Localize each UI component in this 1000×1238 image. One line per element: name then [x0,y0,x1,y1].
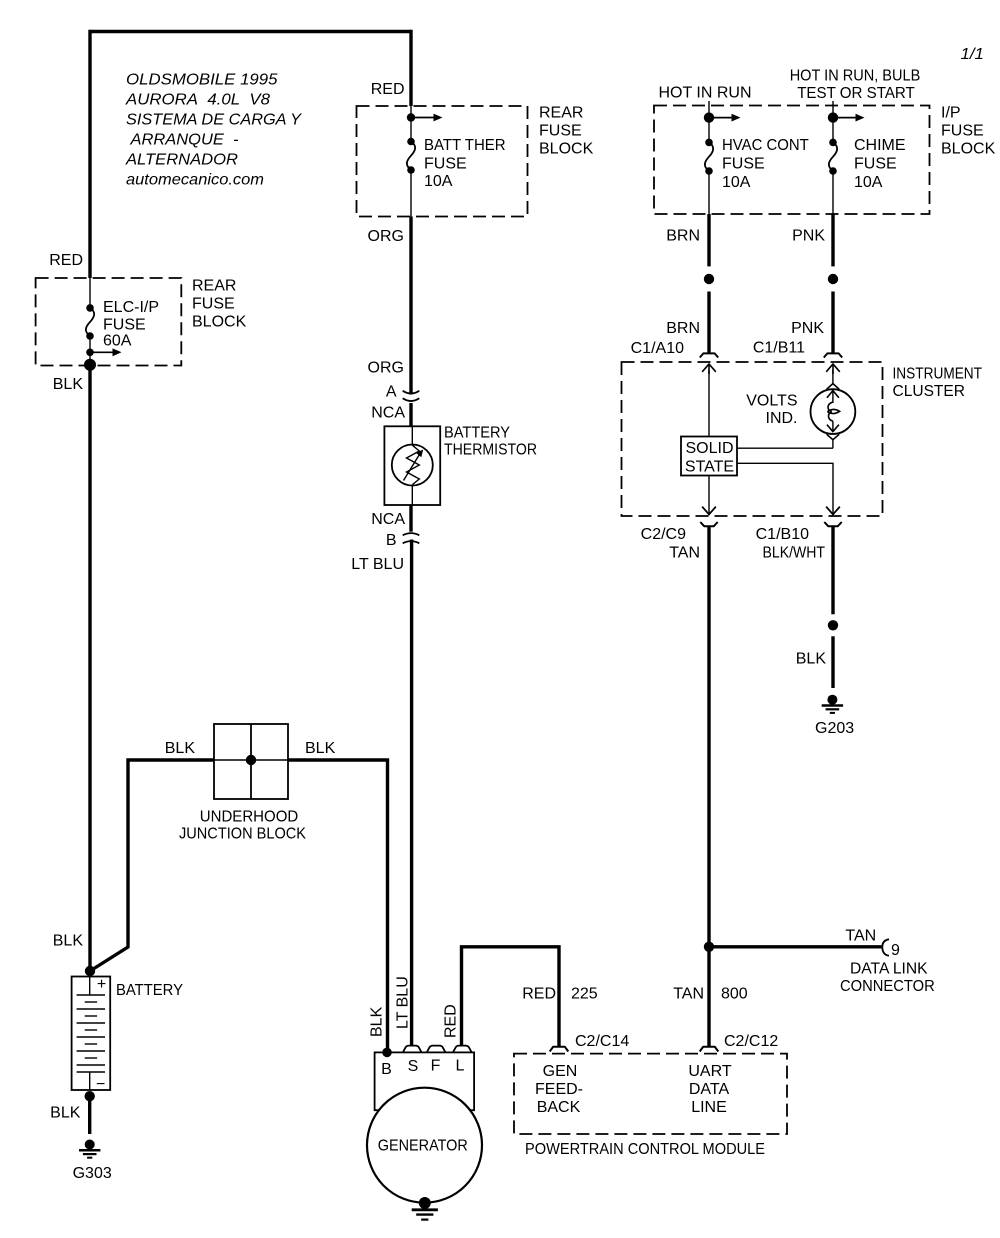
svg-text:800: 800 [721,986,748,1003]
svg-text:BACK: BACK [537,1099,581,1116]
svg-text:BRN: BRN [666,320,700,337]
svg-text:BATTERY: BATTERY [116,982,183,999]
node: rear fuse block output junction [84,359,96,371]
svg-text:BLK: BLK [165,740,196,757]
arrow: ELC fuse output tap [90,348,122,356]
svg-text:A: A [386,384,397,401]
svg-text:10A: 10A [424,173,453,190]
node: HVAC fuse feed [704,112,714,122]
battery internal plates [77,977,105,1091]
wire: fuse to box edge [410,170,412,217]
thermistor internal: lead in [411,426,413,445]
svg-text:10A: 10A [722,174,751,191]
svg-text:THERMISTOR: THERMISTOR [444,442,537,459]
svg-text:C2/C12: C2/C12 [724,1033,778,1050]
volts lamp: filament loop [827,402,839,421]
wire: BRN lower [707,292,710,354]
rear fuse block (left) dashed outline [36,278,182,366]
svg-text:LT BLU: LT BLU [395,976,412,1029]
thermistor internal: lead out [411,486,413,506]
arrow: solid state output down [826,507,840,515]
generator terminal hump F [427,1046,446,1053]
svg-text:ORG: ORG [368,360,404,377]
svg-text:BLOCK: BLOCK [941,141,996,158]
wire: thermistor to connector B [409,505,412,532]
svg-text:AURORA 4.0L V8: AURORA 4.0L V8 [125,92,270,109]
ground G203 [822,695,843,713]
node: batt ther fuse feed [407,113,415,121]
svg-text:−: − [96,1076,105,1093]
node: PNK splice [828,274,838,284]
svg-text:TAN: TAN [669,545,700,562]
svg-text:BLK/WHT: BLK/WHT [763,545,826,562]
svg-text:HOT IN RUN: HOT IN RUN [658,85,751,102]
powertrain control module dashed outline [514,1054,787,1134]
svg-text:ALTERNADOR: ALTERNADOR [125,152,238,169]
svg-text:TAN: TAN [845,928,876,945]
svg-text:C2/C14: C2/C14 [575,1033,629,1050]
svg-text:IND.: IND. [766,410,798,427]
arrow: batt ther fuse feed tap [411,114,443,122]
svg-text:TAN: TAN [673,986,704,1003]
svg-text:FUSE: FUSE [539,123,582,140]
svg-text:S: S [408,1058,419,1075]
svg-text:BLK: BLK [305,740,336,757]
wire: node to fuse [410,118,412,142]
label HVAC CONT FUSE 10A [722,137,809,191]
wire: connector A to thermistor [409,403,412,426]
svg-text:+: + [97,976,106,993]
solid state box [681,437,737,476]
svg-text:9: 9 [891,942,900,959]
wire: through junction block (thin) [214,759,288,761]
label INSTRUMENT CLUSTER [893,366,983,401]
svg-text:I/P: I/P [941,105,961,122]
connector C2/C14 at PCM [550,1047,569,1052]
label DATA LINK CONNECTOR [840,961,935,996]
label REAR FUSE BLOCK (left) [192,278,247,331]
svg-text:GEN: GEN [543,1063,578,1080]
label UNDERHOOD JUNCTION BLOCK [179,809,306,843]
svg-text:BLK: BLK [796,651,827,668]
volts lamp: top coupling triangle [827,370,840,389]
svg-text:BRN: BRN [666,228,700,245]
wire: junction block to generator B [288,760,388,1052]
svg-text:B: B [381,1061,392,1078]
svg-text:BLK: BLK [53,933,84,950]
svg-text:FUSE: FUSE [103,317,146,334]
svg-text:C1/B11: C1/B11 [753,340,805,357]
svg-text:LINE: LINE [691,1099,727,1116]
node: TAN splice to DLC [704,942,714,952]
generator body circle [367,1088,482,1203]
svg-text:automecanico.com: automecanico.com [126,172,264,189]
ground at generator case [412,1197,438,1220]
wire: left RED vertical (top to rear fuse block) [88,30,91,278]
svg-text:UART: UART [688,1063,731,1080]
generator terminal hump S [403,1046,422,1053]
connector C1/A10 at cluster [700,353,718,374]
svg-text:INSTRUMENT: INSTRUMENT [893,366,983,383]
thermistor zigzag element [407,445,420,484]
svg-text:BLOCK: BLOCK [539,141,594,158]
svg-text:GENERATOR: GENERATOR [378,1138,468,1155]
wire: solid state to output [737,463,833,513]
svg-text:DATA: DATA [689,1081,730,1098]
connector C1/B11 at cluster [824,353,842,374]
svg-text:RED: RED [443,1004,460,1038]
thermistor circle [392,445,433,486]
fuse BATT THER 10A [407,138,415,174]
connector C2/C12 at PCM [700,1047,719,1052]
volts lamp: internal up arrow [827,389,839,403]
label CHIME FUSE 10A [854,137,906,191]
node: junction block splice [246,755,256,765]
wire: feed into ELC-I/P fuse [89,278,91,308]
svg-text:BLK: BLK [50,1105,81,1122]
volts indicator lamp circle [811,389,856,434]
svg-text:BATT THER: BATT THER [424,137,506,154]
wire: LT BLU long vertical to generator S [410,540,413,1047]
svg-text:1/1: 1/1 [961,46,984,63]
svg-text:STATE: STATE [685,459,734,476]
svg-text:CLUSTER: CLUSTER [893,383,966,400]
volts lamp: internal down arrow [827,421,839,431]
connector C1/B10 at cluster [824,507,841,527]
label REAR FUSE BLOCK (top) [539,105,594,158]
node: BRN splice [704,274,714,284]
rear fuse block (top) dashed outline [357,106,528,217]
svg-text:C1/A10: C1/A10 [631,340,684,357]
svg-text:FUSE: FUSE [854,156,897,173]
node: BLK/WHT splice [828,620,838,630]
arrow: HVAC fuse feed tap [709,114,741,122]
wire: BLK/WHT upper [831,527,834,614]
wire: box edge to feed node (thin) [410,106,412,118]
svg-text:REAR: REAR [539,105,583,122]
svg-text:HVAC CONT: HVAC CONT [722,137,809,154]
node: battery negative [85,1091,95,1101]
svg-text:CHIME: CHIME [854,137,906,154]
node: CHIME fuse feed [828,112,838,122]
svg-text:FUSE: FUSE [424,156,467,173]
wire: battery to underhood junction block (diagonal) [90,760,214,971]
svg-text:UNDERHOOD: UNDERHOOD [200,809,299,826]
svg-text:F: F [431,1058,441,1075]
svg-text:C2/C9: C2/C9 [641,526,686,543]
title block [125,72,302,189]
wire: top RED bus [90,30,411,33]
i/p fuse block dashed outline [654,106,930,215]
svg-text:L: L [456,1058,465,1075]
svg-text:ARRANQUE -: ARRANQUE - [129,132,238,149]
svg-text:ORG: ORG [368,228,404,245]
wire: BLK to ground [831,636,834,688]
svg-text:225: 225 [571,986,598,1003]
label VOLTS IND. [746,393,797,428]
generator terminal box [375,1052,475,1110]
thermistor variability arrow [404,450,424,481]
wire: HVAC fuse to box edge [708,171,710,214]
wire: bulb test feed [832,101,834,118]
svg-text:POWERTRAIN CONTROL MODULE: POWERTRAIN CONTROL MODULE [525,1141,765,1158]
svg-text:B: B [386,532,397,549]
wire: hot-in-run feed [708,101,710,118]
wire: BLK left vertical to battery [88,365,91,971]
wire: cluster internal left drop [708,370,710,437]
connector B (in-line) [403,533,420,543]
arrow: CHIME fuse feed tap [833,114,865,122]
svg-text:PNK: PNK [792,228,825,245]
connector C2/C9 at cluster [700,507,717,527]
label BATTERY THERMISTOR [444,425,537,459]
fuse CHIME 10A [829,139,837,175]
svg-text:VOLTS: VOLTS [746,393,797,410]
wire: TAN branch to data link connector [709,945,881,948]
svg-text:BLK: BLK [369,1006,386,1037]
svg-text:10A: 10A [854,174,883,191]
svg-text:TEST OR START: TEST OR START [797,85,915,102]
wire: RED from generator L to PCM [462,947,560,1046]
arrow: cluster lower drop down [702,507,716,515]
svg-text:SISTEMA DE CARGA Y: SISTEMA DE CARGA Y [126,112,302,129]
svg-text:REAR: REAR [192,278,236,295]
wire: lamp to solid state [737,447,833,449]
svg-text:BLOCK: BLOCK [192,314,247,331]
volts lamp: bottom coupling triangle [827,434,840,448]
svg-text:DATA LINK: DATA LINK [850,961,928,978]
svg-text:JUNCTION BLOCK: JUNCTION BLOCK [179,826,306,843]
svg-text:HOT IN RUN, BULB: HOT IN RUN, BULB [790,68,921,85]
instrument cluster dashed outline [622,362,883,516]
fuse HVAC CONT 10A [705,139,713,175]
svg-text:LT BLU: LT BLU [351,556,404,573]
svg-text:RED: RED [522,986,556,1003]
wire: PNK lower [831,292,834,354]
wire: BRN upper [707,214,710,266]
wire: node to HVAC fuse [708,118,710,143]
label BATT THER FUSE 10A [424,137,506,190]
wire: battery negative to G303 [88,1096,91,1134]
svg-text:C1/B10: C1/B10 [756,526,809,543]
svg-text:NCA: NCA [371,511,405,528]
svg-text:FEED-: FEED- [535,1081,583,1098]
svg-text:RED: RED [49,252,83,269]
battery thermistor outline box [384,426,440,505]
svg-text:CONNECTOR: CONNECTOR [840,978,935,995]
wire: solid state lower drop [708,476,710,514]
ground G303 [79,1140,100,1158]
wire: node to CHIME fuse [832,118,834,143]
wire: TAN vertical trunk [707,527,710,1046]
svg-text:NCA: NCA [371,405,405,422]
label I/P FUSE BLOCK [941,105,996,158]
label ELC-I/P FUSE 60A [103,299,159,350]
data link connector cavity symbol [882,939,889,956]
node: ELC fuse output [86,349,94,357]
wire: CHIME fuse to box edge [832,171,834,214]
generator terminal hump L [453,1046,472,1053]
svg-text:OLDSMOBILE 1995: OLDSMOBILE 1995 [126,72,278,89]
label HOT IN RUN, BULB TEST OR START [790,68,921,103]
connector A (in-line) [403,391,420,401]
wire: ORG vertical [409,217,412,395]
battery B+ outline [72,977,111,1091]
svg-text:FUSE: FUSE [722,156,765,173]
underhood junction block outline [214,724,288,799]
node: battery positive junction [85,966,95,976]
fuse ELC-I/P 60A [86,304,94,340]
label GEN FEED- BACK [535,1063,583,1116]
svg-text:FUSE: FUSE [192,296,235,313]
svg-text:G203: G203 [815,720,854,737]
wire: RED into batt ther fuse [409,30,412,106]
label UART DATA LINE [688,1063,731,1116]
svg-text:SOLID: SOLID [685,440,733,457]
wire: PNK upper [831,214,834,266]
wire: ELC fuse to output node [89,336,91,365]
svg-text:PNK: PNK [791,320,824,337]
node: generator B terminal [382,1048,392,1058]
svg-text:60A: 60A [103,333,132,350]
svg-text:BLK: BLK [53,376,84,393]
svg-text:ELC-I/P: ELC-I/P [103,299,159,316]
svg-text:G303: G303 [73,1165,112,1182]
label SOLID STATE [685,440,734,476]
svg-text:RED: RED [371,81,405,98]
svg-text:FUSE: FUSE [941,123,984,140]
svg-text:BATTERY: BATTERY [444,425,510,442]
